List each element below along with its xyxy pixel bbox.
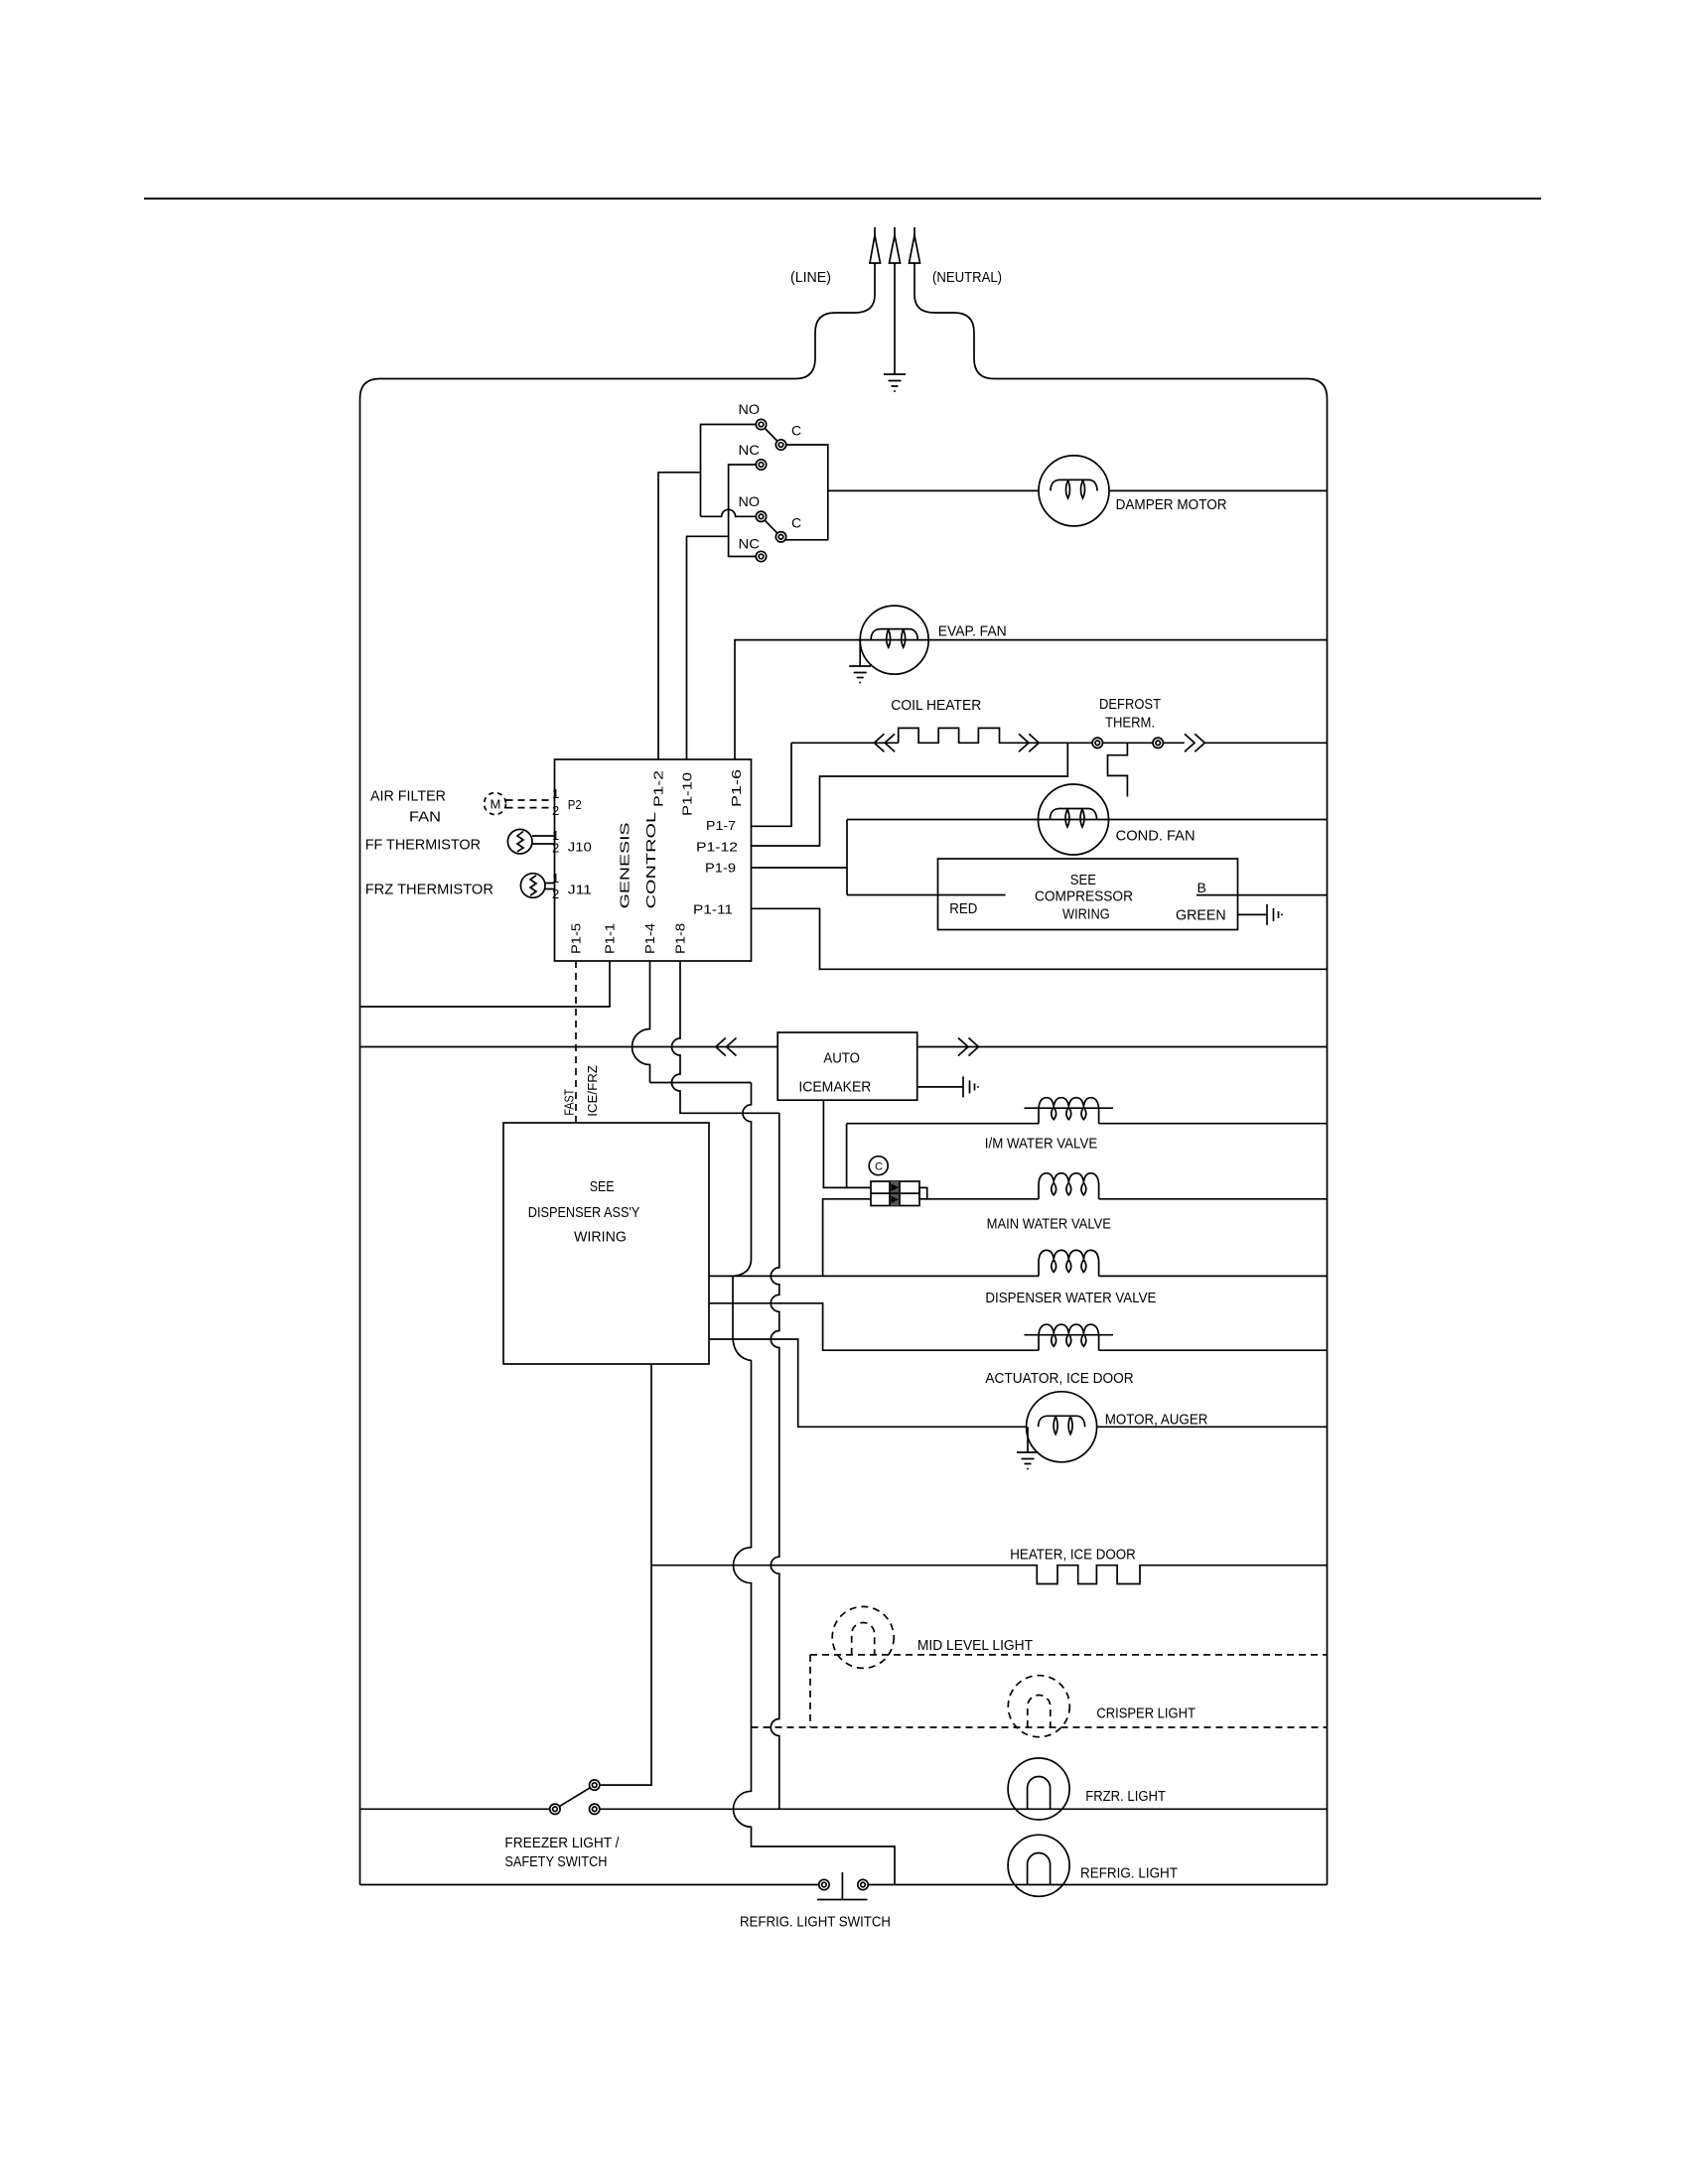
wire icemaker right to border <box>917 1046 1328 1048</box>
wire B out of compressor box <box>1196 894 1328 896</box>
wire P1-4 net vertical mid column <box>733 1083 895 1885</box>
svg-text:HEATER, ICE DOOR: HEATER, ICE DOOR <box>1010 1547 1136 1564</box>
terminal NC1 <box>756 460 766 470</box>
wire dispenser pin A / dispenser water valve <box>709 1275 1328 1277</box>
chevrons left coil heater <box>874 734 895 751</box>
svg-text:FRZ THERMISTOR: FRZ THERMISTOR <box>365 882 493 898</box>
wire evap fan line with P1-6 riser <box>735 640 1328 759</box>
svg-text:P1-4: P1-4 <box>642 923 657 954</box>
svg-text:C: C <box>791 515 801 531</box>
dashed wire crisper light branch <box>752 1726 1328 1728</box>
svg-text:J11: J11 <box>568 883 592 897</box>
genesis control box <box>555 759 752 961</box>
wire frzr light line <box>600 1808 1328 1810</box>
wire icemaker line A from left rail <box>360 1046 778 1048</box>
svg-text:(NEUTRAL): (NEUTRAL) <box>932 269 1002 286</box>
svg-text:MID LEVEL LIGHT: MID LEVEL LIGHT <box>917 1637 1033 1654</box>
chevrons icemaker right <box>958 1038 979 1056</box>
svg-text:DISPENSER WATER VALVE: DISPENSER WATER VALVE <box>985 1290 1156 1306</box>
svg-text:FREEZER LIGHT /: FREEZER LIGHT / <box>504 1835 620 1851</box>
svg-text:P2: P2 <box>568 797 582 812</box>
water valve solenoid module <box>871 1181 919 1206</box>
svg-text:NC: NC <box>739 536 761 552</box>
svg-text:J10: J10 <box>568 840 592 855</box>
wire P1-12 riser to defrost junction <box>752 743 1068 846</box>
wire freezer light rail left <box>360 1808 550 1810</box>
svg-text:GREEN: GREEN <box>1176 907 1226 924</box>
air filter fan motor circle (dashed) <box>485 793 506 815</box>
svg-text:1: 1 <box>552 871 559 886</box>
wire P1-8 net vertical to freezer light wire <box>771 1113 778 1809</box>
defrost terminal right <box>1153 738 1163 748</box>
wire heater ice door <box>651 1566 1328 1584</box>
ground plug center <box>894 263 896 374</box>
dashed wires P2 <box>506 800 555 808</box>
ground evap fan <box>849 640 871 683</box>
svg-text:(LINE): (LINE) <box>790 269 831 286</box>
wire C1-C2 link with damper tap <box>781 445 1040 540</box>
svg-text:EVAP. FAN: EVAP. FAN <box>938 623 1007 640</box>
svg-text:M: M <box>491 797 501 812</box>
svg-text:P1-12: P1-12 <box>696 840 738 855</box>
svg-text:2: 2 <box>552 803 559 818</box>
svg-text:COIL HEATER: COIL HEATER <box>891 697 981 714</box>
chevrons defrost right <box>1185 734 1204 751</box>
svg-text:P1-11: P1-11 <box>693 902 733 917</box>
chassis ground compressor <box>1267 904 1282 925</box>
module arrows <box>892 1184 900 1192</box>
svg-text:FF THERMISTOR: FF THERMISTOR <box>365 837 481 854</box>
defrost terminal left <box>1092 738 1102 748</box>
chassis ground icemaker <box>963 1076 978 1097</box>
wire coil heater line left of heater <box>791 742 899 744</box>
svg-text:FRZR. LIGHT: FRZR. LIGHT <box>1085 1788 1166 1805</box>
wire hop NO chain over NC vertical <box>701 509 762 516</box>
dispenser assy box <box>503 1123 709 1364</box>
svg-text:2: 2 <box>552 887 559 901</box>
chevrons right coil heater <box>1019 734 1039 751</box>
wire P1-4 vertical with big hop over line A <box>633 961 650 1083</box>
wire P1-10 riser from switch <box>687 536 729 759</box>
module tab <box>919 1187 927 1198</box>
svg-text:2: 2 <box>552 841 559 856</box>
evap fan coil <box>871 629 917 648</box>
svg-text:CONTROL: CONTROL <box>643 812 658 909</box>
switch blade top <box>762 425 781 446</box>
svg-text:P1-10: P1-10 <box>680 772 695 816</box>
FF thermistor zigzag <box>517 832 523 852</box>
wire defrost to right border <box>1204 742 1327 744</box>
svg-text:P1-1: P1-1 <box>603 923 618 954</box>
svg-text:NO: NO <box>739 401 761 417</box>
top rule <box>144 198 1541 200</box>
outer border right <box>994 379 1328 1885</box>
plug prong NEUTRAL <box>914 227 915 235</box>
wire LINE lead into border <box>795 263 875 379</box>
bottom border (also refrig light wire) <box>360 1884 1328 1886</box>
wire main water valve line <box>927 1198 1328 1200</box>
FRZ thermistor circle <box>520 874 545 898</box>
svg-text:P1-6: P1-6 <box>729 769 744 807</box>
wire module lower-left pin <box>823 1199 871 1277</box>
svg-text:THERM.: THERM. <box>1105 715 1155 732</box>
coil dispenser water valve <box>1039 1250 1099 1276</box>
crisper light filament <box>1028 1696 1051 1728</box>
evap fan circle <box>860 606 928 674</box>
svg-text:ACTUATOR, ICE DOOR: ACTUATOR, ICE DOOR <box>985 1370 1133 1387</box>
wire red into compressor box <box>847 894 1006 896</box>
wire P1-9 to junction <box>752 867 848 869</box>
FF thermistor circle <box>507 829 532 854</box>
svg-text:NC: NC <box>739 442 761 458</box>
copyright circle C <box>869 1157 888 1175</box>
wire icemaker bottom pin <box>823 1100 871 1187</box>
auto icemaker box <box>777 1032 917 1100</box>
frzr light filament <box>1028 1777 1051 1810</box>
outer border left+top <box>360 379 796 1885</box>
svg-text:SAFETY SWITCH: SAFETY SWITCH <box>504 1853 607 1870</box>
FRZ thermistor zigzag <box>530 876 536 895</box>
chevrons icemaker left <box>716 1038 737 1056</box>
svg-text:C: C <box>875 1161 883 1173</box>
svg-text:SEE: SEE <box>1070 872 1096 888</box>
svg-text:ICEMAKER: ICEMAKER <box>798 1079 871 1096</box>
coil actuator ice door <box>1025 1324 1114 1350</box>
defrost therm bimetal stub <box>1108 743 1128 796</box>
wire dispenser pin C / motor auger <box>709 1339 1328 1427</box>
frzr light circle <box>1008 1758 1069 1820</box>
svg-text:MOTOR, AUGER: MOTOR, AUGER <box>1105 1412 1208 1429</box>
refrig switch plunger <box>817 1872 868 1900</box>
svg-text:WIRING: WIRING <box>574 1229 627 1246</box>
cond fan coil <box>1051 809 1097 828</box>
cond fan circle <box>1039 784 1109 855</box>
damper motor coil <box>1051 479 1097 498</box>
svg-text:AUTO: AUTO <box>823 1050 860 1067</box>
svg-text:FAST: FAST <box>562 1089 577 1116</box>
motor auger coil <box>1039 1416 1085 1434</box>
terminal freezer switch lower <box>590 1804 600 1814</box>
svg-text:COND. FAN: COND. FAN <box>1116 828 1196 845</box>
svg-text:REFRIG. LIGHT: REFRIG. LIGHT <box>1080 1865 1178 1882</box>
svg-text:WIRING: WIRING <box>1062 906 1110 923</box>
wire dispenser pin B / actuator ice door <box>709 1303 1328 1350</box>
svg-text:P1-8: P1-8 <box>673 923 688 954</box>
terminal freezer switch upper <box>590 1780 600 1790</box>
crisper light circle (dashed) <box>1008 1676 1069 1737</box>
plug prong ground center <box>894 227 896 235</box>
wire NO1 to vertical <box>701 425 762 517</box>
svg-text:P1-2: P1-2 <box>651 770 666 807</box>
wire P1-8 vertical with hops <box>672 961 779 1113</box>
plug prong LINE <box>874 227 876 235</box>
svg-text:FAN: FAN <box>409 809 441 826</box>
coil main water valve <box>1039 1173 1099 1199</box>
wire cond fan line <box>847 819 1328 821</box>
svg-text:REFRIG. LIGHT SWITCH: REFRIG. LIGHT SWITCH <box>740 1914 891 1931</box>
motor auger circle <box>1027 1392 1097 1462</box>
FRZ thermistor wires <box>545 884 555 889</box>
terminal NC2 <box>756 551 766 561</box>
svg-text:ICE/FRZ: ICE/FRZ <box>585 1065 600 1117</box>
terminal refrig switch left <box>819 1879 829 1889</box>
FF thermistor wires <box>532 836 555 844</box>
junction vertical cond fan / red <box>846 820 848 895</box>
svg-text:AIR FILTER: AIR FILTER <box>370 788 446 805</box>
wire P1-1 to left rail <box>360 961 611 1007</box>
svg-text:CRISPER LIGHT: CRISPER LIGHT <box>1096 1706 1196 1722</box>
svg-text:GENESIS: GENESIS <box>618 822 633 908</box>
terminal NO1 <box>756 419 766 429</box>
switch blade bottom <box>762 516 781 537</box>
refrig light circle <box>1008 1835 1069 1896</box>
svg-text:B: B <box>1197 880 1206 895</box>
svg-text:I/M WATER VALVE: I/M WATER VALVE <box>985 1136 1097 1153</box>
svg-text:C: C <box>791 423 801 439</box>
wire NC1 to vertical <box>729 465 762 557</box>
wire defrost therm segment <box>1067 742 1185 744</box>
svg-text:RED: RED <box>949 900 977 917</box>
wire damper motor to right border <box>1109 489 1328 491</box>
wire NEUTRAL lead into border <box>914 263 994 379</box>
compressor wiring box <box>938 859 1238 930</box>
terminal C2 <box>775 532 785 542</box>
terminal NO2 <box>756 511 766 521</box>
svg-text:P1-9: P1-9 <box>705 861 736 876</box>
wire dispenser bottom pin to freezer switch <box>600 1364 651 1785</box>
wire P1-7 to coil heater <box>752 743 792 826</box>
terminal C1 <box>775 440 785 450</box>
dashed wire P1-5 fast ice <box>575 961 577 1123</box>
svg-text:MAIN WATER VALVE: MAIN WATER VALVE <box>987 1216 1111 1233</box>
coil IM water valve <box>1025 1098 1114 1124</box>
wire IM water valve line <box>847 1123 1328 1125</box>
svg-text:DEFROST: DEFROST <box>1099 696 1161 713</box>
dashed wire mid level light branch <box>810 1655 1328 1727</box>
svg-text:NO: NO <box>739 493 761 509</box>
terminal freezer switch left <box>550 1804 560 1814</box>
damper motor circle <box>1039 456 1109 526</box>
coil heater element <box>899 728 1068 743</box>
svg-text:P1-7: P1-7 <box>706 818 736 833</box>
svg-text:P1-5: P1-5 <box>569 923 584 954</box>
wire IM valve riser <box>846 1124 848 1188</box>
svg-text:DAMPER MOTOR: DAMPER MOTOR <box>1116 496 1227 513</box>
svg-text:SEE: SEE <box>590 1178 615 1195</box>
svg-text:COMPRESSOR: COMPRESSOR <box>1035 888 1133 905</box>
wire line B <box>650 1082 752 1084</box>
wire green to chassis ground <box>1238 913 1268 915</box>
wire icemaker ground lead <box>917 1086 963 1088</box>
svg-text:1: 1 <box>552 786 559 801</box>
ground motor auger <box>1017 1427 1039 1468</box>
wire P1-11 to right border <box>752 908 1328 969</box>
mid level light circle (dashed) <box>832 1606 894 1668</box>
freezer switch blade <box>555 1785 595 1809</box>
mid level light filament <box>852 1623 875 1655</box>
refrig light filament <box>1028 1853 1051 1885</box>
svg-text:DISPENSER ASS'Y: DISPENSER ASS'Y <box>528 1204 640 1221</box>
wire P1-2 riser from switch <box>658 473 701 759</box>
terminal refrig switch right <box>858 1879 868 1889</box>
